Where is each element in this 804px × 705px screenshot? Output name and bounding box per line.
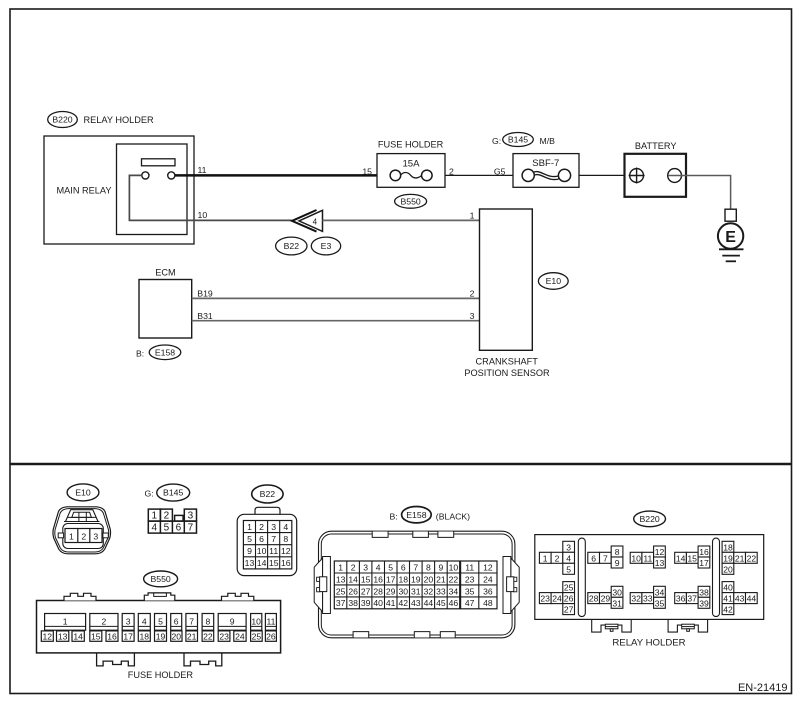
svg-text:12: 12 — [655, 547, 665, 557]
svg-text:22: 22 — [747, 553, 757, 563]
svg-text:15: 15 — [361, 574, 371, 584]
svg-text:11: 11 — [198, 165, 207, 175]
svg-text:23: 23 — [219, 631, 229, 641]
svg-text:33: 33 — [643, 594, 653, 604]
svg-text:21: 21 — [187, 631, 197, 641]
svg-text:38: 38 — [348, 598, 358, 608]
connector label B550 oval (view) — [144, 571, 178, 587]
B550 top bump right — [222, 593, 254, 600]
svg-text:16: 16 — [699, 547, 709, 557]
svg-text:14: 14 — [257, 558, 267, 568]
B550 fuse cell 2 — [90, 614, 118, 631]
B220 vertical bar right — [713, 538, 720, 617]
svg-text:25: 25 — [336, 586, 346, 596]
svg-text:29: 29 — [601, 594, 611, 604]
connector label E10 oval (view) — [67, 484, 99, 501]
svg-text:18: 18 — [723, 542, 733, 552]
svg-text:B22: B22 — [284, 241, 300, 251]
svg-text:21: 21 — [436, 574, 446, 584]
B22 top tab — [255, 507, 280, 514]
relay contact right — [168, 172, 175, 179]
svg-text:9: 9 — [615, 558, 620, 568]
svg-text:G:: G: — [492, 136, 501, 146]
B220 pins 36-39 group — [675, 593, 687, 604]
B550 terminal cell 17 — [122, 631, 134, 641]
svg-text:B31: B31 — [197, 311, 213, 321]
svg-text:46: 46 — [449, 598, 459, 608]
svg-text:MAIN RELAY: MAIN RELAY — [57, 185, 112, 195]
svg-text:E10: E10 — [75, 488, 91, 498]
relay coil — [142, 159, 176, 166]
svg-text:FUSE HOLDER: FUSE HOLDER — [128, 670, 194, 680]
svg-text:15: 15 — [362, 166, 372, 176]
svg-text:6: 6 — [174, 616, 179, 626]
B550 terminal cell 25 — [251, 631, 263, 641]
svg-text:25: 25 — [252, 631, 262, 641]
B550 terminal cell 21 — [186, 631, 198, 641]
svg-text:3: 3 — [93, 531, 98, 541]
svg-text:10: 10 — [198, 210, 208, 220]
svg-text:42: 42 — [723, 605, 733, 615]
relay contact left — [142, 172, 149, 179]
svg-text:9: 9 — [439, 562, 444, 572]
svg-text:15: 15 — [269, 558, 279, 568]
svg-text:27: 27 — [361, 586, 371, 596]
svg-text:15: 15 — [687, 553, 697, 563]
svg-text:11: 11 — [269, 546, 278, 556]
svg-text:10: 10 — [631, 553, 641, 563]
svg-text:SBF-7: SBF-7 — [532, 158, 559, 169]
svg-text:14: 14 — [348, 574, 358, 584]
ground point E circle — [718, 223, 743, 248]
svg-text:11: 11 — [465, 562, 474, 572]
svg-text:19: 19 — [411, 574, 421, 584]
B550 terminal cell 16 — [106, 631, 118, 641]
svg-text:23: 23 — [540, 594, 550, 604]
svg-text:4: 4 — [313, 217, 318, 226]
B220 pins 14-17 group — [675, 552, 687, 563]
svg-text:6: 6 — [176, 523, 182, 534]
B220 pins 18-22 group — [722, 541, 734, 552]
svg-text:2: 2 — [351, 562, 356, 572]
wire battery to ground — [668, 176, 731, 210]
svg-text:10: 10 — [251, 616, 261, 626]
svg-text:44: 44 — [747, 594, 757, 604]
svg-text:1: 1 — [470, 211, 475, 221]
svg-text:38: 38 — [699, 587, 709, 597]
svg-text:4: 4 — [142, 616, 147, 626]
svg-text:1: 1 — [69, 531, 74, 541]
svg-text:5: 5 — [566, 564, 571, 574]
svg-text:4: 4 — [376, 562, 381, 572]
svg-text:CRANKSHAFT: CRANKSHAFT — [476, 356, 539, 366]
B550 terminal cell 12 — [41, 631, 53, 641]
wire fuse to SBF-7 — [445, 174, 513, 176]
E158 bottom tab — [353, 632, 369, 638]
svg-text:5: 5 — [158, 616, 163, 626]
svg-text:37: 37 — [687, 594, 697, 604]
E158 pin grid right — [461, 561, 497, 609]
svg-text:25: 25 — [564, 583, 574, 593]
svg-text:6: 6 — [259, 534, 264, 544]
B550 top bump middle — [144, 593, 175, 601]
B550 fuse cell 3 — [122, 614, 134, 631]
B550 fuse cell 5 — [155, 614, 167, 631]
B550 fuse cell 10 — [251, 614, 262, 631]
harness arrow triangle 4 — [299, 210, 323, 231]
svg-text:B550: B550 — [400, 196, 420, 206]
B220 vertical bar left — [578, 538, 585, 617]
svg-text:20: 20 — [172, 631, 182, 641]
B220 pins 6-9 group — [588, 552, 600, 563]
B220 pins 32-35 group — [630, 593, 642, 604]
svg-text:45: 45 — [436, 598, 446, 608]
svg-text:13: 13 — [58, 631, 68, 641]
svg-text:28: 28 — [589, 594, 599, 604]
svg-text:34: 34 — [449, 586, 459, 596]
B550 terminal cell 23 — [218, 631, 230, 641]
E158 top tab — [372, 532, 388, 538]
svg-text:44: 44 — [424, 598, 434, 608]
B550 terminal cell 14 — [72, 631, 84, 641]
svg-text:26: 26 — [564, 594, 574, 604]
fuse holder box — [377, 154, 445, 188]
svg-text:6: 6 — [591, 553, 596, 563]
ground strokes — [719, 248, 744, 250]
B550 terminal cell 20 — [171, 631, 182, 641]
B550 fuse cell 6 — [171, 614, 182, 631]
svg-text:37: 37 — [336, 598, 346, 608]
svg-text:2: 2 — [81, 531, 86, 541]
E158 pin grid main — [334, 561, 459, 609]
svg-text:39: 39 — [361, 598, 371, 608]
wire pin11 to fuse holder — [175, 174, 395, 177]
svg-text:2: 2 — [555, 553, 560, 563]
B220 pins 10-13 group — [630, 552, 642, 563]
B220 tab screw — [682, 624, 695, 629]
svg-text:3: 3 — [271, 522, 276, 532]
svg-text:36: 36 — [483, 586, 493, 596]
svg-text:3: 3 — [188, 511, 194, 522]
svg-text:19: 19 — [723, 553, 733, 563]
svg-text:30: 30 — [612, 587, 622, 597]
B145 cell 3 — [184, 509, 196, 521]
E10 top key trapezoid — [66, 510, 99, 522]
svg-text:17: 17 — [699, 558, 709, 568]
svg-text:2: 2 — [164, 511, 170, 522]
svg-text:24: 24 — [552, 594, 562, 604]
B550 mounting tab — [184, 653, 222, 666]
E158 top tab — [438, 532, 454, 538]
E158 left latch — [314, 558, 322, 612]
E158 bottom tab — [440, 632, 455, 638]
svg-text:30: 30 — [399, 586, 409, 596]
svg-text:ECM: ECM — [155, 268, 175, 278]
svg-text:13: 13 — [245, 558, 255, 568]
svg-text:4: 4 — [152, 523, 158, 534]
B22 body — [237, 514, 297, 575]
connector label E3 oval — [311, 237, 340, 255]
fuse terminal left — [390, 170, 401, 181]
SBF-7 box — [513, 154, 579, 188]
svg-text:1: 1 — [338, 562, 343, 572]
harness arrow chevron — [292, 210, 317, 232]
svg-text:2: 2 — [470, 289, 475, 299]
B220 pins 28-31 group — [588, 593, 600, 604]
svg-text:B145: B145 — [163, 488, 183, 498]
svg-text:B220: B220 — [52, 115, 72, 125]
svg-text:B550: B550 — [150, 574, 170, 584]
fuse terminal right — [422, 170, 433, 181]
svg-text:1: 1 — [247, 522, 252, 532]
connector label B22 oval (view) — [252, 485, 283, 503]
connector label B220 oval — [48, 112, 78, 128]
svg-text:E10: E10 — [546, 276, 562, 286]
B220 relay holder body — [535, 535, 764, 620]
svg-text:17: 17 — [123, 631, 133, 641]
svg-text:M/B: M/B — [540, 136, 556, 146]
svg-text:35: 35 — [655, 598, 665, 608]
svg-text:16: 16 — [373, 574, 383, 584]
B145 notch cell — [175, 515, 184, 521]
svg-text:5: 5 — [247, 534, 252, 544]
svg-text:2: 2 — [259, 522, 264, 532]
svg-text:8: 8 — [426, 562, 431, 572]
svg-text:27: 27 — [564, 605, 574, 615]
B220 pins 40-44 group — [722, 582, 734, 593]
B550 terminal cell 18 — [138, 631, 150, 641]
E158 right latch — [511, 558, 519, 612]
svg-text:33: 33 — [436, 586, 446, 596]
svg-text:1: 1 — [63, 616, 68, 626]
svg-text:32: 32 — [631, 594, 641, 604]
svg-text:2: 2 — [102, 616, 107, 626]
wire SBF-7 to battery — [579, 174, 636, 176]
svg-text:18: 18 — [140, 631, 150, 641]
svg-text:16: 16 — [107, 631, 117, 641]
svg-text:16: 16 — [281, 558, 291, 568]
E158 top tab — [413, 532, 429, 538]
svg-text:7: 7 — [413, 562, 418, 572]
svg-text:28: 28 — [373, 586, 383, 596]
B220 mounting tab — [592, 619, 632, 632]
E158 body inner — [321, 534, 512, 635]
B145 grid row2 cells 4-7 — [148, 521, 196, 533]
svg-text:26: 26 — [348, 586, 358, 596]
svg-text:19: 19 — [156, 631, 166, 641]
svg-text:(BLACK): (BLACK) — [436, 511, 470, 521]
B145 grid row1 cells 1-2 — [148, 509, 160, 521]
svg-text:E158: E158 — [155, 347, 175, 357]
svg-text:40: 40 — [373, 598, 383, 608]
svg-text:41: 41 — [386, 598, 396, 608]
svg-text:7: 7 — [188, 523, 194, 534]
svg-text:23: 23 — [465, 574, 475, 584]
battery minus terminal — [668, 169, 682, 183]
B550 terminal cell 24 — [234, 631, 246, 641]
ground connector square — [725, 209, 736, 221]
wire arrow to sensor pin1 — [323, 219, 480, 221]
svg-text:E158: E158 — [406, 510, 426, 520]
relay internal wire to pin 10 — [129, 175, 291, 220]
B550 terminal cell 19 — [155, 631, 167, 641]
B550 fuse cell 11 — [265, 614, 276, 631]
SBF terminal left — [522, 169, 534, 181]
svg-text:3: 3 — [470, 311, 475, 321]
connector label E10 oval — [538, 273, 568, 290]
svg-text:39: 39 — [699, 598, 709, 608]
svg-text:22: 22 — [203, 631, 213, 641]
svg-text:4: 4 — [566, 553, 571, 563]
svg-text:42: 42 — [399, 598, 409, 608]
B550 terminal cell 15 — [90, 631, 102, 641]
svg-text:8: 8 — [206, 616, 211, 626]
B550 top bump left — [64, 593, 96, 600]
svg-text:29: 29 — [386, 586, 396, 596]
svg-text:4: 4 — [283, 522, 288, 532]
fuse element wave — [400, 173, 421, 178]
B550 fuse cell 8 — [202, 614, 214, 631]
svg-text:34: 34 — [655, 587, 665, 597]
svg-text:22: 22 — [449, 574, 459, 584]
svg-text:48: 48 — [483, 598, 493, 608]
svg-text:RELAY HOLDER: RELAY HOLDER — [84, 115, 154, 125]
wire B19 to sensor pin2 — [192, 297, 480, 299]
SBF element double wave — [533, 172, 560, 177]
svg-text:12: 12 — [483, 562, 493, 572]
svg-text:8: 8 — [615, 547, 620, 557]
B550 fuse cell 7 — [186, 614, 198, 631]
svg-text:POSITION SENSOR: POSITION SENSOR — [464, 368, 550, 378]
svg-text:7: 7 — [271, 534, 276, 544]
svg-text:20: 20 — [723, 564, 733, 574]
svg-text:21: 21 — [735, 553, 745, 563]
B550 terminal cell 22 — [202, 631, 214, 641]
svg-text:B220: B220 — [639, 514, 659, 524]
svg-text:7: 7 — [603, 553, 608, 563]
svg-text:E: E — [725, 229, 736, 246]
svg-text:13: 13 — [336, 574, 346, 584]
E10 side tabs — [58, 533, 63, 538]
svg-text:43: 43 — [735, 594, 745, 604]
B550 fuse holder body — [37, 601, 281, 653]
battery plus terminal — [630, 169, 644, 183]
svg-text:1: 1 — [543, 553, 548, 563]
B220 tab screw — [605, 624, 618, 629]
connector label B22 oval — [276, 237, 307, 255]
E10 pin cells 1 2 3 — [65, 529, 102, 543]
svg-text:5: 5 — [388, 562, 393, 572]
svg-text:B19: B19 — [197, 288, 213, 298]
svg-text:12: 12 — [43, 631, 53, 641]
svg-text:B:: B: — [390, 511, 398, 521]
svg-text:RELAY HOLDER: RELAY HOLDER — [612, 637, 685, 648]
svg-text:35: 35 — [465, 586, 475, 596]
E158 bottom tab — [414, 632, 430, 638]
svg-text:B145: B145 — [508, 135, 528, 145]
svg-text:5: 5 — [164, 523, 170, 534]
svg-text:11: 11 — [266, 616, 275, 626]
svg-text:40: 40 — [723, 583, 733, 593]
svg-text:6: 6 — [401, 562, 406, 572]
svg-text:32: 32 — [424, 586, 434, 596]
svg-text:FUSE HOLDER: FUSE HOLDER — [378, 140, 444, 150]
E10 connector body outline — [53, 507, 111, 554]
connector label B550 oval — [395, 194, 427, 208]
svg-text:41: 41 — [723, 594, 733, 604]
connector label B220 oval (view) — [634, 511, 666, 527]
svg-text:3: 3 — [126, 616, 131, 626]
svg-text:36: 36 — [676, 594, 686, 604]
B550 terminal cell 13 — [57, 631, 69, 641]
svg-text:11: 11 — [643, 553, 652, 563]
svg-text:G5: G5 — [494, 166, 506, 176]
svg-text:18: 18 — [399, 574, 409, 584]
svg-text:13: 13 — [655, 558, 665, 568]
B220 pins 1-5 group — [539, 552, 551, 563]
B550 fuse cell 4 — [138, 614, 150, 631]
svg-text:10: 10 — [449, 562, 459, 572]
svg-text:31: 31 — [411, 586, 421, 596]
svg-text:EN-21419: EN-21419 — [738, 682, 788, 694]
wire B31 to sensor pin3 — [192, 320, 480, 322]
B220 pins 23-27 group — [539, 593, 551, 604]
B550 terminal cell 26 — [265, 631, 276, 641]
B22 pin grid 4x4 — [243, 521, 291, 569]
svg-text:7: 7 — [189, 616, 194, 626]
svg-text:B22: B22 — [260, 489, 276, 499]
svg-text:1: 1 — [152, 511, 158, 522]
B550 fuse cell 9 — [218, 614, 246, 631]
svg-text:14: 14 — [73, 631, 83, 641]
svg-text:3: 3 — [566, 542, 571, 552]
svg-text:43: 43 — [411, 598, 421, 608]
SBF terminal right — [558, 169, 570, 181]
svg-text:24: 24 — [483, 574, 493, 584]
svg-text:8: 8 — [283, 534, 288, 544]
svg-text:3: 3 — [363, 562, 368, 572]
svg-text:15A: 15A — [402, 159, 420, 170]
svg-text:E3: E3 — [321, 241, 332, 251]
svg-text:9: 9 — [230, 616, 235, 626]
B220 mounting tab — [668, 619, 708, 632]
E10 inner collar — [63, 524, 104, 549]
svg-text:26: 26 — [266, 631, 276, 641]
svg-text:47: 47 — [465, 598, 475, 608]
E158 body outer — [319, 531, 515, 638]
svg-text:9: 9 — [247, 546, 252, 556]
crankshaft position sensor box — [480, 209, 533, 350]
B550 mounting tab — [97, 653, 135, 666]
svg-text:G:: G: — [145, 489, 154, 499]
svg-text:24: 24 — [235, 631, 245, 641]
svg-text:20: 20 — [424, 574, 434, 584]
ECM box — [139, 280, 192, 339]
svg-text:14: 14 — [676, 553, 686, 563]
main relay inner box — [117, 144, 188, 235]
svg-text:10: 10 — [257, 546, 267, 556]
svg-text:31: 31 — [612, 598, 622, 608]
svg-text:12: 12 — [281, 546, 291, 556]
svg-text:B:: B: — [136, 348, 144, 358]
relay holder outer box — [44, 136, 194, 244]
svg-text:BATTERY: BATTERY — [635, 141, 677, 151]
svg-text:15: 15 — [91, 631, 101, 641]
svg-text:17: 17 — [386, 574, 396, 584]
divider line between schematic and connector views — [10, 463, 792, 466]
battery box — [625, 154, 687, 197]
B550 fuse cell 1 — [45, 614, 86, 631]
